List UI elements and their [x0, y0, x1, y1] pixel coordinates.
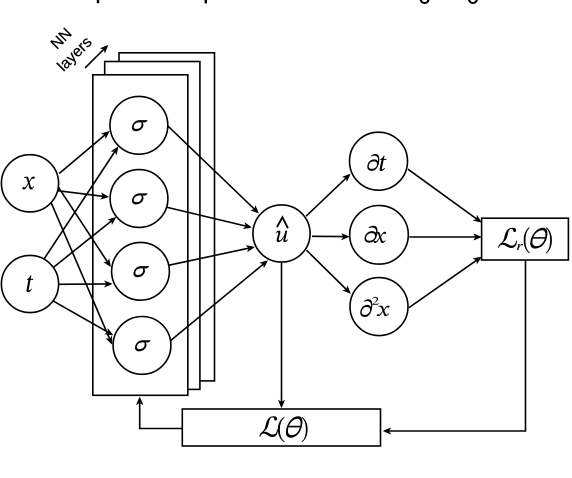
NN layer rectangle (middle)	[105, 62, 200, 390]
wire t to sigma4	[54, 301, 114, 335]
label t	[26, 275, 33, 292]
wire x to sigma1	[59, 131, 109, 174]
derivative node d2x	[350, 278, 408, 336]
label left paren of Lr box	[524, 227, 530, 253]
neuron sigma 2	[110, 170, 168, 228]
wire t to sigma1	[44, 147, 118, 260]
wire d2x to Lr box	[409, 257, 482, 308]
wire u-hat to dx	[312, 233, 350, 240]
wire dt to Lr box	[408, 169, 482, 222]
label sigma of S2	[132, 193, 148, 204]
label partial of dt	[367, 154, 379, 171]
label u of u-hat	[276, 231, 289, 242]
wire sigma4 to u-hat	[170, 260, 268, 340]
wire t to sigma2	[53, 217, 116, 267]
wire x to sigma2	[58, 191, 109, 200]
label theta of L box	[285, 416, 303, 437]
cropped caption g-loop fragment 3	[421, 0, 429, 3]
label sigma of S1	[132, 120, 148, 131]
label x of dx	[374, 232, 387, 243]
label x	[22, 176, 34, 189]
label subscript r of Lr box	[517, 244, 523, 250]
NN layer rectangle (front)	[93, 75, 188, 396]
wire x to sigma4	[51, 202, 112, 344]
derivative node dx	[350, 206, 409, 265]
label theta of Lr box	[530, 228, 548, 249]
label right paren of Lr box	[546, 227, 552, 253]
label partial of dx	[365, 226, 378, 243]
label t of dt	[380, 156, 387, 171]
cropped caption g-loop fragment 4	[469, 0, 477, 3]
wire x to sigma3	[58, 187, 110, 267]
label x of d2x	[377, 306, 390, 317]
wire dx to Lr box	[409, 234, 481, 241]
output node u-hat	[253, 205, 310, 262]
wire sigma3 to u-hat	[169, 245, 255, 265]
cropped caption descender fragment 2	[205, 0, 207, 3]
label right paren of L box	[302, 417, 308, 442]
derivative node dt	[350, 132, 408, 190]
wire u-hat to d2x	[307, 250, 351, 294]
label partial of d2x	[360, 299, 372, 317]
label script L of Lr box	[498, 228, 517, 248]
label sigma of S3	[133, 266, 149, 277]
label sigma of S4	[135, 340, 151, 351]
wire u-hat to dt	[306, 174, 350, 216]
loss box Lr(theta)	[482, 218, 569, 260]
input node x	[1, 155, 58, 212]
label script L of L box	[259, 416, 278, 437]
NN layer rectangle (back)	[119, 53, 215, 381]
label left paren of L box	[278, 417, 285, 442]
label NN layers	[40, 19, 96, 75]
hat accent of u-hat	[277, 217, 287, 227]
neuron sigma 1	[110, 96, 168, 154]
loss box L(theta)	[182, 409, 380, 446]
NN layers annotation arrow	[85, 45, 108, 68]
wire sigma2 to u-hat	[166, 207, 252, 229]
wire Lr box to L box	[383, 260, 526, 435]
cropped caption descender fragment 1	[97, 0, 99, 3]
input node t	[1, 255, 58, 312]
wire L box feedback to NN layers	[136, 397, 182, 429]
wire t to sigma3	[59, 281, 113, 288]
label superscript 2 of d2x	[372, 297, 378, 305]
wire sigma1 to u-hat	[168, 126, 259, 213]
neuron sigma 4	[113, 317, 171, 375]
wire u-hat down to L box	[278, 262, 285, 408]
neuron sigma 3	[112, 242, 170, 300]
